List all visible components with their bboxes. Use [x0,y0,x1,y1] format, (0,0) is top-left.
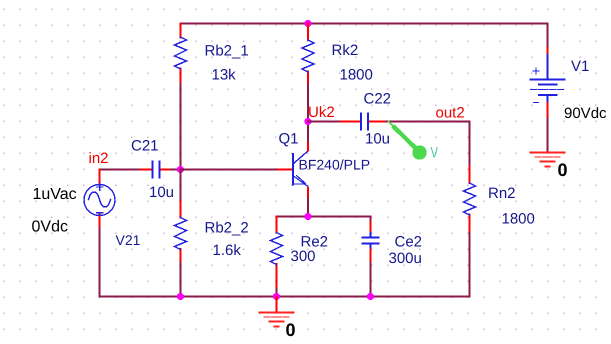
svg-text:V: V [431,145,439,162]
wire emitter rail [277,216,371,218]
svg-text:Ce2: Ce2 [395,234,423,251]
svg-text:Rb2_2: Rb2_2 [205,220,249,237]
svg-text:0: 0 [286,320,296,340]
transistor Q1 [293,151,309,187]
wire top rail [181,23,548,25]
svg-text:0Vdc: 0Vdc [32,219,68,236]
svg-text:in2: in2 [89,150,109,167]
transistor Q1 collector pin [307,141,309,151]
resistor Rb2_2 [175,218,187,250]
wire bottom rail [100,296,470,298]
node Re2 bottom junction [273,293,280,300]
svg-text:V1: V1 [571,58,589,75]
wire Rb2_1 to in2 node [180,84,182,170]
node Ce2 bottom junction [367,293,374,300]
source V21 (VAC) [84,184,115,216]
wire emitter to rail [307,199,309,217]
capacitor C22 pins [341,121,386,123]
wire collector to Uk2 [307,122,309,141]
svg-text:Uk2: Uk2 [308,104,335,121]
svg-text:13k: 13k [212,67,237,84]
svg-text:10u: 10u [365,131,390,148]
wire out2 vertical to Rn2 [469,122,471,167]
ground 0 bottom [260,313,294,327]
wire Ce2 to bottom rail [370,263,372,297]
capacitor C21 pins [142,169,172,171]
wire V1 to ground [547,119,549,152]
resistor Rk2 pins [307,24,309,85]
node top rail / Rk2 junction [304,20,311,27]
probe V marker [389,122,417,150]
label 1uVac [32,105,608,340]
wire base [181,169,279,171]
source V21 pins [99,170,101,230]
svg-text:C21: C21 [131,138,159,155]
source V1 top pin [547,48,549,55]
transistor Q1 emitter pin [307,188,309,199]
resistor Rb2_1 [175,37,187,69]
wire Uk2 to C22 [308,121,341,123]
svg-text:1uVac: 1uVac [33,186,77,203]
svg-text:out2: out2 [436,105,465,122]
svg-text:0: 0 [558,160,568,180]
svg-text:300: 300 [291,248,316,265]
transistor Q1 base pin [278,169,293,171]
capacitor Ce2 pins [370,222,372,263]
wire C22 to out2 corner [386,121,470,123]
svg-text:Rn2: Rn2 [488,185,516,202]
source V1 battery [531,55,565,103]
source V1 bottom pin [547,103,549,119]
wire C21 to in2 junction [171,169,181,171]
svg-text:90Vdc: 90Vdc [564,105,607,122]
svg-text:C22: C22 [364,91,392,108]
wire Rn2 to bottom rail [469,233,471,297]
capacitor Ce2 [363,233,379,248]
capacitor C22 [361,114,368,130]
svg-text:BF240/PLP: BF240/PLP [299,157,371,173]
resistor Re2 [271,233,283,265]
svg-text:Rk2: Rk2 [332,42,359,59]
wire Ce2 top [370,217,372,223]
capacitor C21 [153,162,160,178]
resistor Rn2 [464,183,476,215]
svg-text:1800: 1800 [340,67,373,84]
resistor Rn2 pins [469,167,471,234]
resistor Rb2_2 pins [180,202,182,264]
net label in2 [89,104,465,167]
svg-text:Q1: Q1 [279,131,299,148]
svg-text:300u: 300u [389,250,422,267]
svg-text:1.6k: 1.6k [213,242,242,259]
svg-text:10u: 10u [149,184,174,201]
node Rb2_2 bottom junction [177,293,184,300]
wire V21 to bottom rail [99,229,101,297]
node Uk2 junction [304,118,311,125]
node emitter junction [304,213,311,220]
wire Rb2_2 to bottom rail [180,263,182,297]
resistor Re2 pins [276,217,278,290]
wire Re2 to bottom rail [276,289,278,297]
resistor Rb2_1 pins [180,24,182,85]
wire V1 top [547,24,549,49]
resistor Rk2 [302,40,314,72]
wire in2 junction to Rb2_2 [180,170,182,202]
node in2 junction [177,166,184,173]
ground 0 under V1 [531,153,565,167]
svg-text:V21: V21 [116,232,141,248]
svg-text:1800: 1800 [502,211,535,228]
wire in2 horizontal [100,169,142,171]
label Rb2_1 [116,42,590,267]
ground pin bottom [276,297,278,313]
svg-text:Rb2_1: Rb2_1 [205,43,249,60]
wire Rk2 to Uk2 node [307,85,309,122]
